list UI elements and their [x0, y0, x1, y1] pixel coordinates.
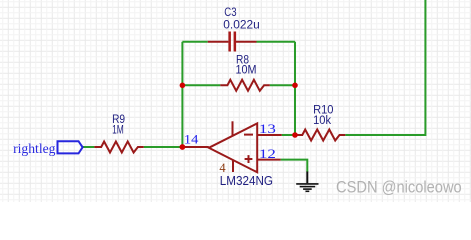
op-amp top power stub: [232, 121, 234, 136]
capacitor C3: [208, 32, 257, 52]
op-amp bottom power stub: [232, 160, 234, 172]
pin 14 line: [184, 146, 209, 148]
svg-text:10M: 10M: [236, 63, 257, 77]
op-amp plus sign: [245, 155, 253, 163]
svg-text:12: 12: [259, 147, 276, 161]
svg-text:14: 14: [184, 133, 199, 147]
junction dot R8 right: [292, 83, 298, 89]
resistor R8: [220, 80, 269, 91]
wire: R10 output to top edge: [345, 0, 425, 135]
pin 13 line: [257, 134, 282, 136]
wire: top C3 left segment: [182, 41, 207, 43]
resistor R9: [94, 142, 143, 153]
ground symbol: [296, 172, 318, 192]
pin 12 line: [257, 159, 280, 161]
wire: pin12 to ground: [281, 160, 308, 172]
wire: left vertical rail: [181, 42, 183, 147]
wire: R9 to junction: [144, 146, 183, 148]
svg-text:1M: 1M: [112, 122, 124, 136]
op-amp U (LM324NG) triangle: [209, 123, 257, 172]
wire: R8 right segment: [270, 84, 295, 86]
svg-text:10k: 10k: [313, 113, 332, 127]
wire: right vertical rail: [294, 42, 296, 135]
wire: pin13 to junction: [282, 134, 295, 136]
resistor R10: [295, 130, 345, 141]
op-amp minus sign: [244, 134, 253, 136]
svg-text:13: 13: [259, 122, 276, 136]
port rightleg symbol: [58, 141, 83, 153]
svg-text:LM324NG: LM324NG: [220, 173, 273, 188]
wire: R8 left segment: [182, 84, 220, 86]
junction dot R8 left: [180, 83, 186, 89]
svg-text:rightleg: rightleg: [13, 142, 55, 157]
junction dot output node: [180, 144, 186, 150]
svg-text:0.022u: 0.022u: [223, 17, 260, 31]
wire: C3 right segment: [257, 41, 296, 43]
junction dot pin13 node: [292, 132, 298, 138]
wire: port to R9: [83, 146, 95, 148]
svg-text:CSDN @nicoleowo: CSDN @nicoleowo: [336, 178, 462, 196]
